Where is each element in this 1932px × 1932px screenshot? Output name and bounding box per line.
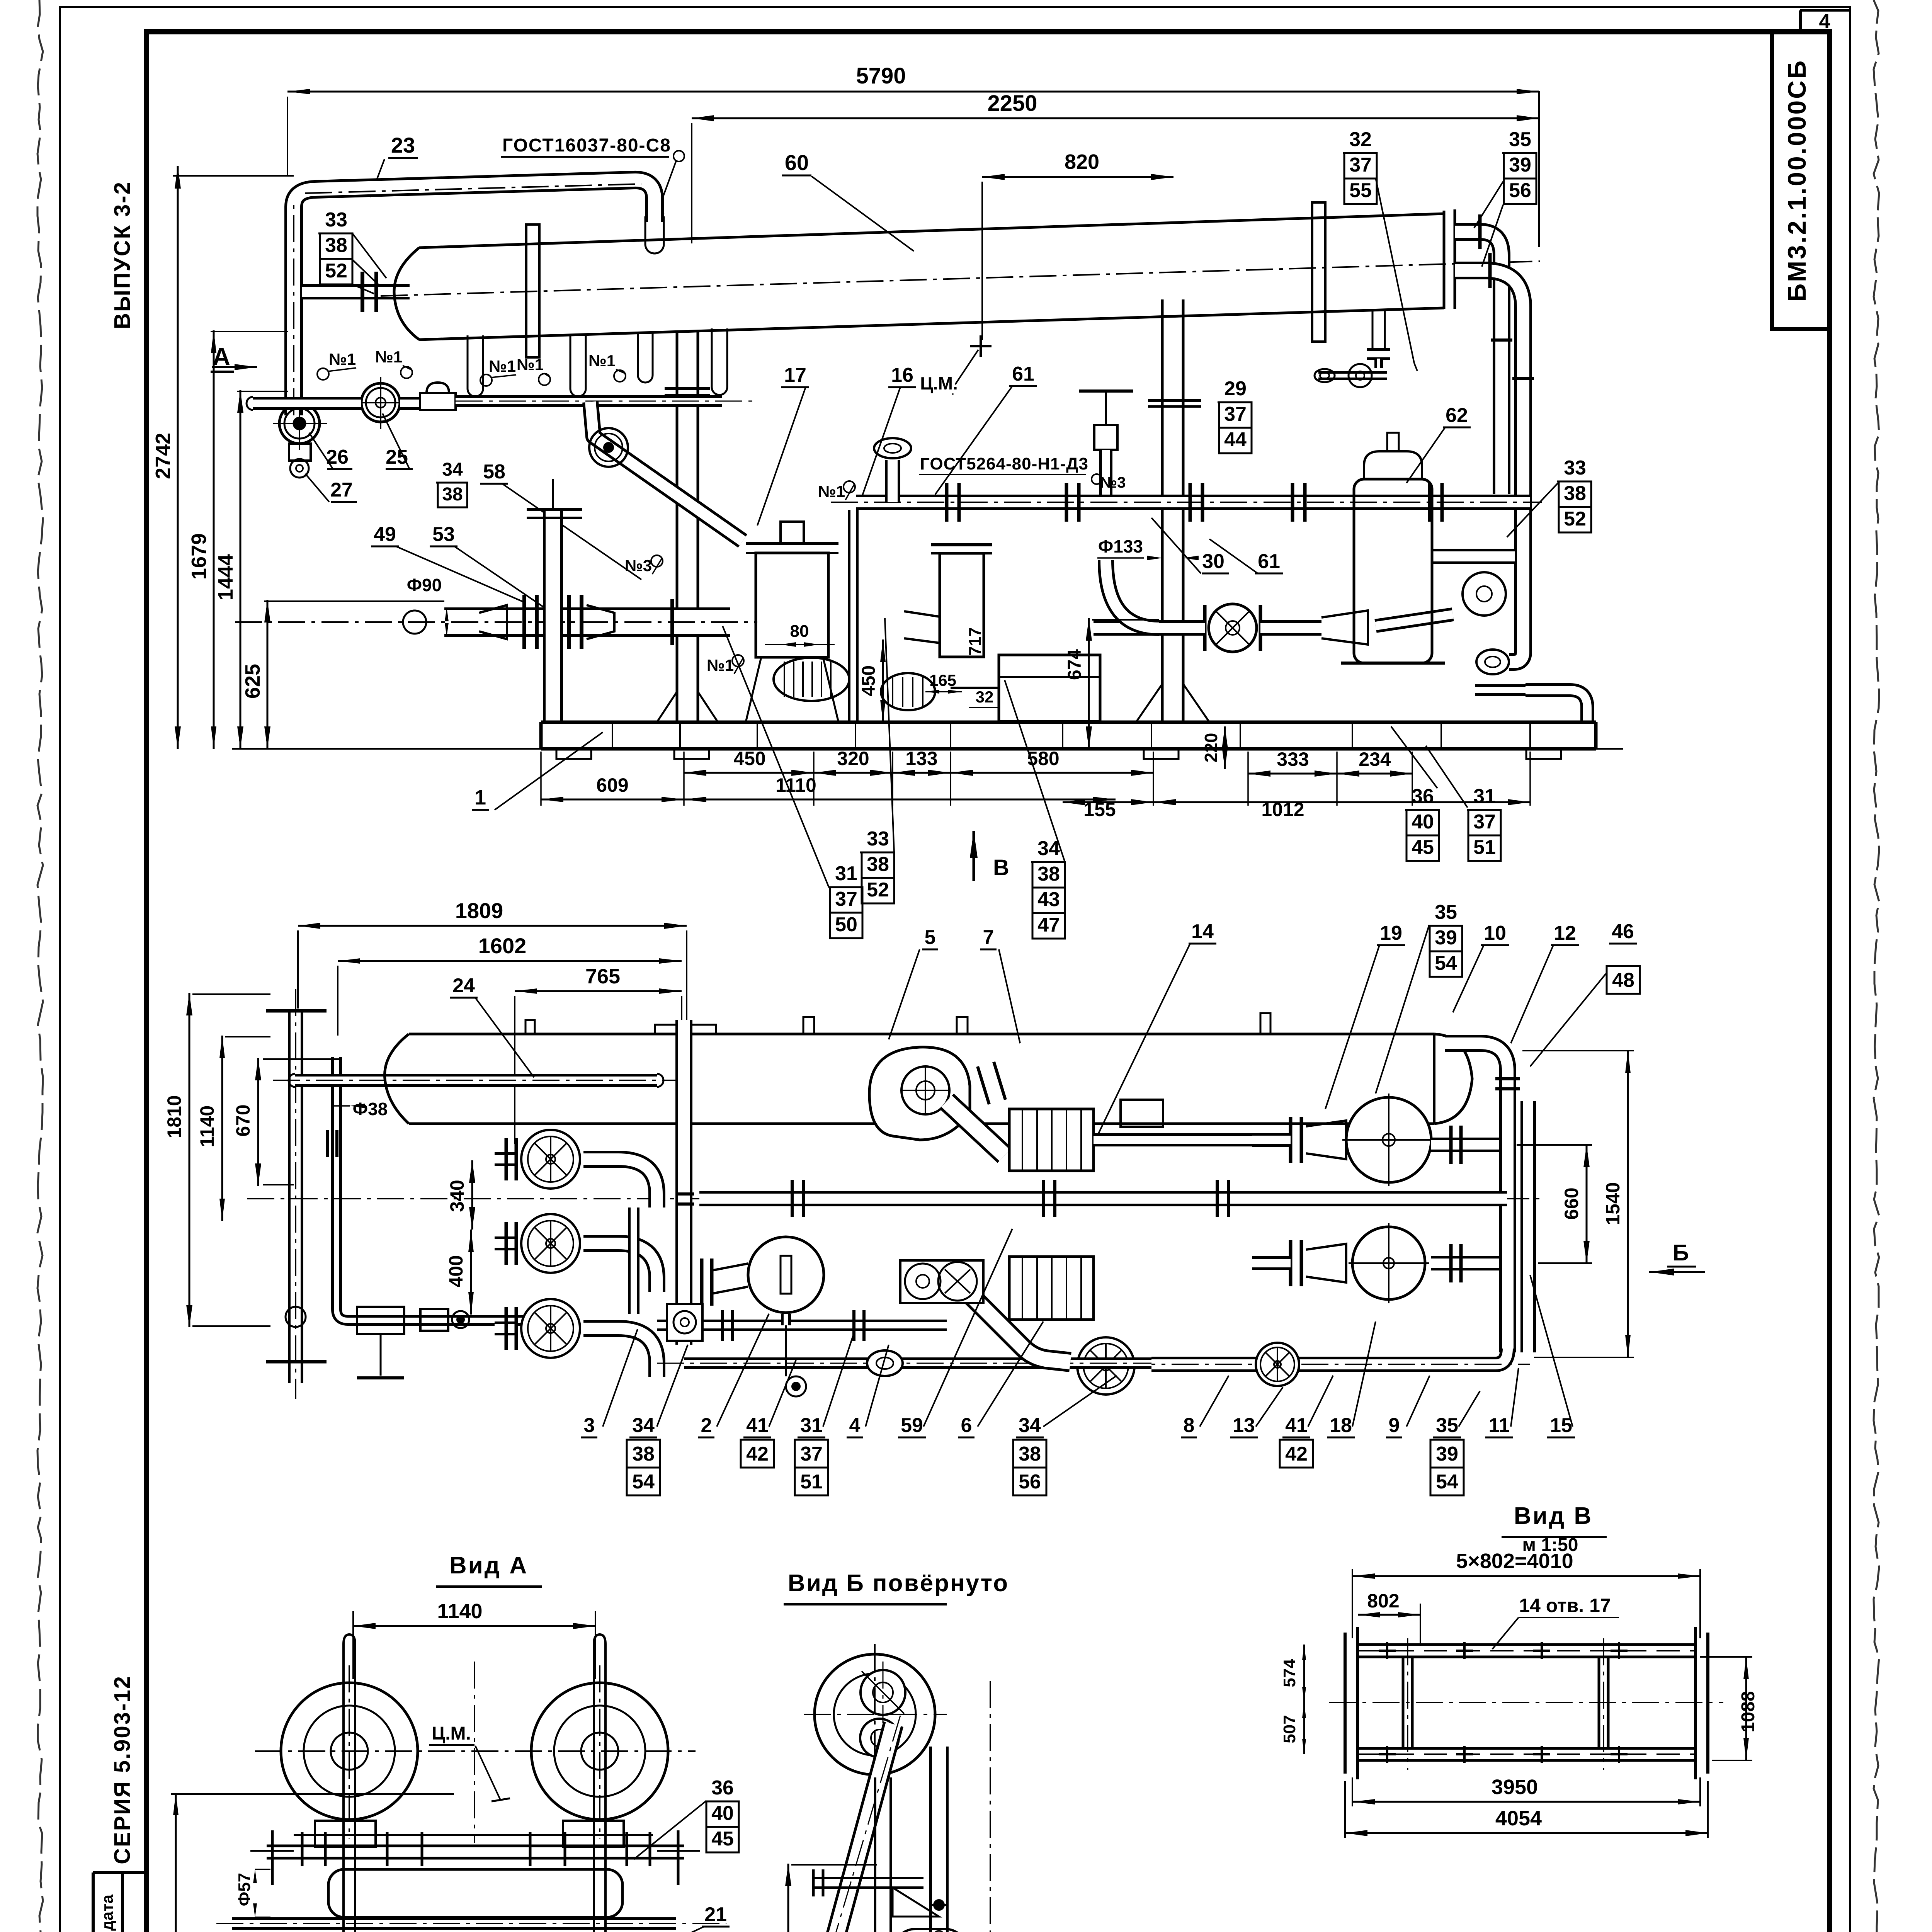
svg-text:ВЫПУСК 3-2: ВЫПУСК 3-2 <box>110 181 135 329</box>
svg-text:10: 10 <box>1484 922 1506 944</box>
plan dim 1810 vertical <box>189 993 190 1327</box>
valve handle top mid <box>1079 389 1133 393</box>
svg-text:51: 51 <box>800 1471 823 1493</box>
plan bottom discharge pipe <box>1151 1349 1508 1364</box>
plan lower connections <box>657 1320 947 1331</box>
film edge left <box>37 0 43 1932</box>
svg-text:45: 45 <box>711 1828 734 1850</box>
svg-text:34: 34 <box>1019 1414 1041 1437</box>
view V dim 1088 <box>1745 1657 1747 1760</box>
svg-text:80: 80 <box>790 622 809 641</box>
svg-text:44: 44 <box>1224 429 1247 451</box>
svg-text:670: 670 <box>232 1104 254 1136</box>
manifold left circle fitting <box>403 611 426 634</box>
svg-text:30: 30 <box>1202 550 1225 573</box>
plan pump lower <box>748 1237 824 1313</box>
view A handle right <box>677 1830 680 1885</box>
svg-text:450: 450 <box>733 748 765 769</box>
svg-text:580: 580 <box>1027 748 1059 769</box>
plan upper pump volute <box>869 1047 970 1140</box>
svg-text:Ц.М.: Ц.М. <box>920 373 957 393</box>
left dim 2742 <box>177 166 179 749</box>
view A center dash line <box>474 1662 475 1843</box>
svg-text:507: 507 <box>1280 1715 1299 1743</box>
svg-text:1140: 1140 <box>437 1600 482 1623</box>
plan mid manifold <box>699 1191 1507 1206</box>
svg-text:34: 34 <box>632 1414 655 1437</box>
plan bottom wheel 2 <box>1256 1343 1299 1386</box>
plan pump2 upper circle <box>1346 1097 1431 1182</box>
svg-text:ГОСТ5264-80-Н1-Д3: ГОСТ5264-80-Н1-Д3 <box>920 454 1088 473</box>
svg-text:1110: 1110 <box>776 774 816 796</box>
filter legs <box>746 657 761 722</box>
svg-text:3: 3 <box>584 1414 595 1437</box>
plan dim 765 <box>515 990 682 992</box>
valve on diagonal <box>589 428 628 467</box>
center of mass mark <box>970 345 992 347</box>
svg-text:38: 38 <box>1564 482 1586 505</box>
view V dim 802 <box>1358 1614 1420 1616</box>
document number stamp rotated <box>1772 32 1830 329</box>
valve unit 1 left <box>279 403 320 444</box>
view B diagonal pipe <box>832 1724 893 1932</box>
svg-text:14 отв. 17: 14 отв. 17 <box>1519 1595 1611 1616</box>
valve assembly under 16 <box>1105 396 1107 425</box>
svg-text:БМ3.2.1.00.000СБ: БМ3.2.1.00.000СБ <box>1782 59 1811 302</box>
dim 220 vertical <box>1224 726 1226 769</box>
svg-text:В: В <box>993 855 1009 880</box>
weld N1 mid <box>732 655 744 667</box>
plan right horizontal runs <box>1431 1138 1499 1152</box>
manifold cross left <box>444 607 730 637</box>
svg-text:11: 11 <box>1489 1414 1510 1437</box>
svg-text:56: 56 <box>1509 179 1531 202</box>
svg-text:133: 133 <box>905 748 937 769</box>
filter vessel 2 <box>940 553 984 657</box>
pipe 23 loop <box>294 180 655 415</box>
dimension 820 <box>982 176 1173 178</box>
svg-text:ГОСТ16037-80-С8: ГОСТ16037-80-С8 <box>502 135 671 156</box>
svg-text:32: 32 <box>976 688 994 706</box>
svg-text:333: 333 <box>1277 748 1309 770</box>
svg-text:54: 54 <box>1435 952 1457 975</box>
bottom dims row1 <box>684 772 814 774</box>
tank bottom stub 2 <box>570 335 571 389</box>
arrow B marker <box>973 831 975 881</box>
svg-text:2742: 2742 <box>151 433 175 479</box>
bottom dims row2 <box>541 799 684 801</box>
svg-text:№1: №1 <box>375 348 402 366</box>
svg-text:33: 33 <box>867 828 889 850</box>
plan tank nozzles <box>526 1020 535 1034</box>
svg-text:450: 450 <box>859 665 879 696</box>
manifold vertical post <box>543 510 563 722</box>
svg-text:36: 36 <box>1412 785 1434 808</box>
svg-text:Ф57: Ф57 <box>235 1873 254 1906</box>
left dim 625 <box>267 600 269 749</box>
svg-text:37: 37 <box>1349 154 1372 176</box>
film edge right <box>1874 0 1879 1932</box>
svg-text:№1: №1 <box>329 350 356 368</box>
left suction pipe run <box>253 397 361 410</box>
svg-text:2: 2 <box>701 1414 712 1437</box>
svg-text:1602: 1602 <box>478 934 527 958</box>
svg-text:5×802=4010: 5×802=4010 <box>1456 1549 1573 1573</box>
svg-text:2250: 2250 <box>987 91 1037 116</box>
tank strap right <box>1312 202 1325 342</box>
pump motor block 1 <box>999 655 1100 721</box>
svg-text:37: 37 <box>835 888 857 910</box>
elbow to wheel <box>1106 560 1159 628</box>
svg-text:46: 46 <box>1612 920 1634 943</box>
weld label N1 g4 <box>539 374 550 385</box>
dim 450 vertical mid <box>882 639 884 722</box>
pump 2 circle <box>1463 572 1506 616</box>
svg-text:155: 155 <box>1083 799 1116 820</box>
svg-text:6: 6 <box>961 1414 972 1437</box>
svg-text:47: 47 <box>1037 914 1060 936</box>
svg-text:21: 21 <box>704 1903 727 1926</box>
svg-text:765: 765 <box>585 965 620 988</box>
tank nozzle to loop <box>302 284 410 299</box>
dim 1540 <box>1627 1051 1629 1357</box>
svg-text:7: 7 <box>983 926 994 949</box>
bottom dim ext lines <box>540 752 542 806</box>
svg-text:802: 802 <box>1367 1590 1399 1612</box>
view A pipe below tank <box>232 1917 676 1930</box>
svg-text:35: 35 <box>1436 1414 1458 1437</box>
ground line <box>232 748 1623 750</box>
svg-text:41: 41 <box>746 1414 769 1437</box>
view A right wheel <box>531 1683 668 1820</box>
weld label N1 g3 <box>480 374 492 386</box>
svg-text:340: 340 <box>446 1180 468 1212</box>
view A dim 1920 <box>175 1793 177 1932</box>
filter vessel 1 <box>756 553 828 657</box>
svg-text:49: 49 <box>374 523 396 546</box>
svg-text:54: 54 <box>632 1471 655 1493</box>
view V dim 5x802 <box>1352 1575 1700 1577</box>
svg-text:625: 625 <box>241 664 264 699</box>
view V dim 507 <box>1303 1702 1305 1754</box>
svg-text:24: 24 <box>452 975 475 997</box>
plan second right pipe <box>1520 1101 1536 1352</box>
svg-text:33: 33 <box>1564 457 1586 479</box>
svg-text:60: 60 <box>785 150 809 175</box>
valve wheel front mid <box>1209 604 1257 652</box>
plan dim 1602 <box>338 960 682 962</box>
svg-text:9: 9 <box>1389 1414 1400 1437</box>
view A tank section <box>328 1869 622 1917</box>
left dim 1444 <box>240 390 241 749</box>
svg-text:Вид А: Вид А <box>449 1552 528 1579</box>
dim 670 <box>257 1058 259 1186</box>
dim 674 vertical <box>1088 618 1090 749</box>
svg-text:58: 58 <box>483 461 505 483</box>
view V bottom rail <box>1357 1747 1696 1750</box>
view B small circles <box>861 1670 905 1715</box>
view B dim 1680 <box>787 1864 789 1932</box>
svg-text:1810: 1810 <box>163 1095 185 1138</box>
weld N3 mid <box>651 555 663 567</box>
svg-text:18: 18 <box>1330 1414 1352 1437</box>
skid feet <box>556 749 591 759</box>
svg-text:23: 23 <box>391 133 415 157</box>
svg-text:№1: №1 <box>489 357 516 375</box>
plan dim 1140 vertical <box>221 1036 223 1221</box>
svg-text:38: 38 <box>325 234 347 257</box>
view A wheel support saddles <box>315 1821 376 1847</box>
svg-text:717: 717 <box>966 627 985 655</box>
svg-text:1809: 1809 <box>455 898 503 923</box>
dim 340 <box>471 1160 473 1230</box>
dimension 2250 <box>692 117 1539 119</box>
plan upper diagonal hose <box>947 1101 1005 1155</box>
svg-text:12: 12 <box>1554 922 1576 944</box>
header flanges <box>945 483 949 522</box>
svg-text:54: 54 <box>1436 1471 1458 1493</box>
svg-text:59: 59 <box>901 1414 923 1437</box>
svg-text:5: 5 <box>925 926 936 949</box>
svg-text:660: 660 <box>1561 1187 1582 1219</box>
svg-text:53: 53 <box>432 523 455 546</box>
plan motor lower <box>1009 1257 1094 1320</box>
valve wheel bank 1 <box>521 1130 580 1189</box>
valve wheel bank 3 <box>521 1299 580 1358</box>
tank 60 right end flanges <box>1443 211 1446 309</box>
svg-text:1088: 1088 <box>1738 1691 1759 1733</box>
svg-text:50: 50 <box>835 913 857 936</box>
plan left pipe 1 <box>288 1009 303 1383</box>
weld N1 right <box>844 481 855 493</box>
svg-text:574: 574 <box>1280 1659 1299 1687</box>
reducer cone mid <box>1321 611 1368 645</box>
svg-text:42: 42 <box>1285 1443 1308 1465</box>
plan upper pump flange <box>978 1066 989 1104</box>
svg-text:№1: №1 <box>707 656 734 674</box>
view V top rail <box>1357 1643 1696 1646</box>
svg-text:33: 33 <box>325 209 347 231</box>
svg-text:31: 31 <box>835 862 857 885</box>
svg-text:29: 29 <box>1224 378 1247 400</box>
svg-text:37: 37 <box>1224 403 1247 425</box>
view A wheel axis lines <box>255 1750 696 1752</box>
svg-text:СЕРИЯ 5.903-12: СЕРИЯ 5.903-12 <box>110 1675 135 1864</box>
view A legs <box>342 1861 345 1932</box>
svg-text:15: 15 <box>1550 1414 1572 1437</box>
svg-text:13: 13 <box>1233 1414 1255 1437</box>
view A handle left <box>271 1830 274 1885</box>
tank 60 body <box>419 214 1444 248</box>
svg-text:609: 609 <box>596 774 628 796</box>
view B centerline right <box>990 1681 991 1932</box>
plan diagonal pipe 59 <box>962 1287 1070 1362</box>
tank strap left <box>526 224 539 357</box>
weld label N1 g1 <box>317 368 329 380</box>
dim 400 <box>470 1230 472 1315</box>
plan pump2 cones <box>1306 1121 1346 1159</box>
plan tank body <box>409 1033 1434 1036</box>
svg-text:39: 39 <box>1436 1443 1458 1465</box>
view B stand column <box>874 1777 876 1932</box>
svg-text:43: 43 <box>1037 888 1060 911</box>
svg-text:400: 400 <box>445 1255 467 1287</box>
view A left wheel <box>281 1683 418 1820</box>
bank pipes and elbows <box>495 1152 518 1166</box>
svg-text:37: 37 <box>800 1443 823 1465</box>
svg-text:1679: 1679 <box>187 533 211 580</box>
support column A <box>676 332 679 722</box>
svg-text:14: 14 <box>1191 920 1214 943</box>
svg-text:42: 42 <box>746 1443 769 1465</box>
svg-text:1444: 1444 <box>214 554 237 600</box>
svg-text:234: 234 <box>1359 748 1391 770</box>
svg-text:25: 25 <box>386 446 408 468</box>
svg-text:55: 55 <box>1349 179 1372 202</box>
diagonal pipe to filter <box>590 402 743 541</box>
pump unit small mid <box>881 673 935 710</box>
plan lower pipe left extension <box>684 1357 1151 1369</box>
svg-text:17: 17 <box>784 364 806 386</box>
weld label N1 g5 <box>614 370 626 382</box>
svg-text:Ф133: Ф133 <box>1098 536 1143 556</box>
svg-text:38: 38 <box>632 1443 655 1465</box>
svg-text:31: 31 <box>1473 785 1496 808</box>
svg-text:45: 45 <box>1412 836 1434 859</box>
plan dim 1809 <box>298 925 687 927</box>
svg-text:40: 40 <box>1412 811 1434 833</box>
left dim 1679 <box>213 330 215 749</box>
tank bottom stub 3 <box>711 328 713 387</box>
svg-text:Б: Б <box>1673 1240 1689 1265</box>
view V bolt marks <box>1379 1650 1396 1652</box>
svg-text:61: 61 <box>1258 550 1280 573</box>
svg-text:52: 52 <box>867 879 889 901</box>
plan bottom wheel 1 <box>1077 1337 1134 1395</box>
view V dim 3950 <box>1352 1801 1700 1803</box>
svg-text:№3: №3 <box>625 556 652 575</box>
view B stub flange <box>813 1877 923 1879</box>
svg-text:38: 38 <box>1037 863 1060 885</box>
tank bottom stub 4 <box>637 332 639 375</box>
svg-text:№1: №1 <box>517 355 544 374</box>
tank right outlet pipes <box>1455 232 1502 494</box>
vessel 62 feed branch <box>1433 549 1515 564</box>
plan lower oval valve <box>867 1350 903 1376</box>
svg-text:40: 40 <box>711 1802 734 1825</box>
svg-text:51: 51 <box>1473 836 1496 859</box>
plan motor upper <box>1009 1109 1094 1171</box>
plan pump2 lower circle <box>1352 1227 1425 1299</box>
plan left pipe 2 <box>337 1057 549 1320</box>
support column B <box>1161 299 1164 722</box>
svg-text:52: 52 <box>325 260 347 282</box>
plan tank right elbow <box>1445 1043 1508 1352</box>
svg-text:320: 320 <box>837 748 869 769</box>
view B vertical pipe <box>929 1747 949 1932</box>
svg-text:38: 38 <box>1019 1443 1041 1465</box>
svg-text:220: 220 <box>1201 733 1221 763</box>
view V right flange bar <box>1694 1627 1697 1779</box>
svg-text:1540: 1540 <box>1602 1182 1624 1225</box>
svg-text:48: 48 <box>1612 969 1634 992</box>
sheet number box top right <box>1799 10 1802 32</box>
pipe 23 end cap <box>645 216 646 244</box>
svg-text:39: 39 <box>1509 154 1531 176</box>
svg-text:Ф90: Ф90 <box>407 575 442 595</box>
svg-text:35: 35 <box>1435 901 1457 923</box>
svg-text:№3: №3 <box>1100 474 1126 491</box>
bank riser pipe <box>675 1020 692 1345</box>
svg-text:8: 8 <box>1184 1414 1195 1437</box>
svg-text:31: 31 <box>800 1414 823 1437</box>
skid base <box>541 721 1596 724</box>
view A manifold rows <box>267 1845 684 1847</box>
svg-text:1: 1 <box>474 786 486 809</box>
svg-text:4: 4 <box>849 1414 861 1437</box>
view B big circle <box>815 1654 935 1775</box>
svg-text:16: 16 <box>891 364 913 386</box>
svg-text:4054: 4054 <box>1495 1807 1542 1830</box>
plan tank right cap <box>1433 1034 1435 1124</box>
svg-text:Ф38: Ф38 <box>353 1099 388 1119</box>
plan skid centerline <box>247 1198 1546 1199</box>
svg-text:19: 19 <box>1380 922 1402 944</box>
left margin form strip <box>92 1872 95 1932</box>
svg-text:Подп. и дата: Подп. и дата <box>98 1894 116 1932</box>
plan bottom-left piping <box>357 1307 404 1334</box>
svg-text:36: 36 <box>711 1777 734 1799</box>
svg-text:1140: 1140 <box>196 1105 218 1147</box>
svg-text:1012: 1012 <box>1261 799 1304 820</box>
callout 48 boxed <box>1607 966 1640 994</box>
plan suction pipe 24 <box>295 1074 657 1087</box>
svg-text:38: 38 <box>442 484 463 505</box>
valve wheel bank 2 <box>521 1214 580 1273</box>
svg-text:41: 41 <box>1285 1414 1308 1437</box>
svg-text:№1: №1 <box>588 352 616 370</box>
svg-text:3950: 3950 <box>1492 1776 1538 1799</box>
svg-text:34: 34 <box>1037 837 1060 860</box>
svg-text:34: 34 <box>442 459 463 480</box>
bank collector vertical <box>628 1207 639 1314</box>
weld label N1 g2 <box>401 367 412 378</box>
svg-text:Вид В: Вид В <box>1514 1503 1593 1529</box>
svg-text:165: 165 <box>929 671 956 689</box>
dimension 5790 <box>287 91 1539 93</box>
svg-text:39: 39 <box>1435 927 1457 949</box>
view A riser pipes <box>342 1644 345 1861</box>
svg-text:4: 4 <box>1819 10 1830 33</box>
tank top stub left <box>467 335 469 389</box>
dim 660 <box>1586 1145 1588 1263</box>
svg-text:820: 820 <box>1065 150 1099 173</box>
svg-text:32: 32 <box>1349 128 1372 151</box>
weld mark circle 23 <box>673 151 684 162</box>
svg-text:37: 37 <box>1473 811 1496 833</box>
svg-text:35: 35 <box>1509 128 1531 151</box>
plan bottom stacks <box>627 1440 660 1468</box>
plan upper small fittings <box>1121 1100 1163 1127</box>
view V left flange bar <box>1344 1633 1347 1774</box>
vessel 62 <box>1354 479 1432 663</box>
plan lower small circle <box>786 1376 806 1396</box>
view V dim 574 <box>1303 1645 1305 1702</box>
header tee riser <box>885 460 900 502</box>
plan pump casings lower <box>712 1264 748 1294</box>
svg-text:56: 56 <box>1019 1471 1041 1493</box>
svg-text:Вид Б повёрнуто: Вид Б повёрнуто <box>788 1570 1009 1597</box>
